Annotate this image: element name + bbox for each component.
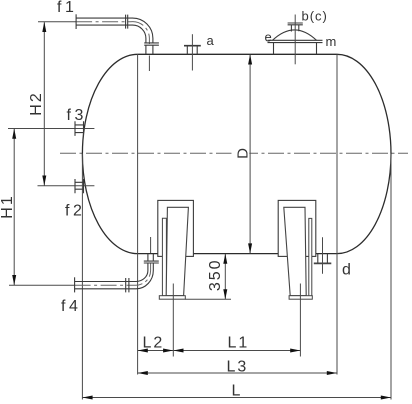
pipe f4 centerline tick inside tank [150, 237, 152, 253]
dimension 350 line [224, 254, 226, 299]
svg-text:f2: f2 [65, 203, 85, 220]
right tangent seam + extension line to L3 [336, 54, 338, 374]
svg-text:f1: f1 [57, 0, 77, 16]
pipe f1 centerline tick inside tank [148, 56, 150, 72]
nozzle a flange [184, 45, 201, 47]
svg-text:a: a [207, 33, 216, 48]
dimension D top arrow [248, 54, 252, 64]
dimension 350 top arrow [223, 254, 227, 264]
label D background [232, 146, 250, 160]
svg-text:H1: H1 [0, 194, 16, 218]
dimension L2 line [138, 350, 174, 352]
dimension H1 bottom arrow [12, 275, 16, 285]
dimension D line [249, 55, 251, 253]
dimension L1 left arrow [173, 349, 183, 353]
svg-text:e: e [265, 30, 274, 45]
nozzle d neck [318, 254, 328, 263]
svg-text:H2: H2 [28, 91, 45, 115]
left leg web [166, 207, 188, 295]
manhole flange [268, 40, 323, 42]
nozzle f2 line [38, 185, 95, 187]
svg-text:f4: f4 [61, 298, 81, 315]
nozzle f2 barrel [75, 182, 84, 189]
pipe f1 centerline [38, 21, 76, 23]
left leg reinforcing pad [158, 200, 194, 256]
svg-text:L2: L2 [143, 335, 165, 352]
nozzle d centerline [322, 237, 324, 273]
tank shell top line [138, 53, 337, 55]
pipe f4 left flange [74, 277, 76, 292]
left leg base plate [159, 296, 185, 300]
svg-text:b(c): b(c) [302, 9, 328, 24]
pipe f1 lower flange [144, 43, 159, 45]
dimension H2 line [43, 22, 45, 185]
dimension L2 right arrow [163, 349, 173, 353]
manhole small nozzle b flange [288, 23, 303, 25]
right elliptical head [337, 54, 391, 253]
dimension H2 bottom arrow [42, 176, 46, 186]
right leg base plate [289, 296, 312, 300]
dimension L line [82, 397, 391, 399]
dimension L2 left arrow [138, 349, 148, 353]
nozzle d flange [314, 262, 332, 264]
svg-text:350: 350 [207, 258, 224, 291]
pipe f1 mid flange pair [126, 15, 128, 29]
dimension L left arrow [82, 396, 92, 400]
nozzle f3 flange ticks [75, 121, 84, 136]
extension line from right head extremity to L dim [390, 154, 392, 400]
nozzle f3 barrel [75, 125, 84, 133]
dimension H2 top arrow [42, 22, 46, 32]
pipe f4 upper flange [144, 261, 159, 263]
extension line from left head extremity to L dim [81, 154, 83, 400]
dimension L right arrow [381, 396, 391, 400]
svg-text:f3: f3 [67, 107, 87, 124]
pipe f4 mid flange pair [126, 278, 129, 292]
manhole centerline [294, 15, 296, 65]
dimension H1 top arrow [12, 129, 16, 139]
nozzle a centerline [191, 34, 193, 70]
dimension L3 line [138, 372, 337, 374]
svg-text:D: D [235, 146, 252, 159]
pipe f1 left flange [75, 14, 77, 29]
right leg web [284, 207, 306, 295]
left leg centerline extension [172, 284, 174, 357]
dimension L1 right arrow [290, 349, 300, 353]
right leg front strip [309, 218, 312, 295]
left leg front strip [162, 218, 166, 295]
dimension D bottom arrow [248, 243, 252, 253]
dimension 350 extension line at base [185, 298, 231, 300]
pipe f1 outer line [76, 18, 153, 54]
right leg reinforcing pad [278, 200, 316, 256]
pipe f4 outer line [75, 254, 154, 289]
left elliptical head [82, 54, 137, 253]
manhole dome cover [273, 30, 317, 40]
dimension 350 bottom arrow [223, 289, 227, 299]
svg-text:m: m [326, 34, 339, 49]
right leg centerline extension [299, 284, 301, 357]
pipe f1 inner line [76, 25, 146, 54]
svg-text:L1: L1 [228, 335, 250, 352]
dimension L3 left arrow [138, 371, 148, 375]
nozzle f2 flange ticks [75, 179, 84, 193]
svg-text:L3: L3 [227, 359, 249, 376]
dimension L1 line [173, 350, 300, 352]
tank shell bottom line segments [138, 253, 337, 255]
dimension L3 right arrow [327, 371, 337, 375]
pipe f4 inner line [75, 254, 148, 282]
svg-text:L: L [232, 383, 243, 400]
nozzle f3 line [8, 128, 94, 130]
manhole neck [274, 43, 317, 55]
pipe f4 centerline [9, 284, 75, 286]
left tangent seam + extension line to L3 [137, 54, 139, 374]
manhole small nozzle b neck [291, 25, 298, 32]
nozzle a neck [187, 46, 197, 54]
centerline horizontal axis [60, 152, 408, 154]
svg-text:d: d [342, 262, 353, 279]
dimension H1 line [13, 129, 15, 285]
